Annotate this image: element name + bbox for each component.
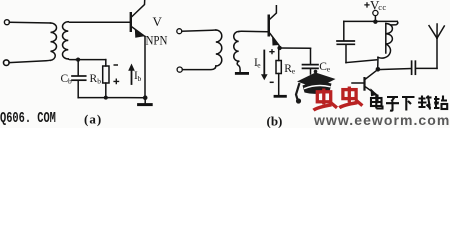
svg-text:e: e <box>257 61 261 70</box>
svg-text:V: V <box>153 14 163 29</box>
svg-text:b: b <box>138 74 142 83</box>
svg-text:b: b <box>97 77 101 86</box>
svg-text:R: R <box>90 73 98 85</box>
svg-text:www.eeworm.com: www.eeworm.com <box>313 112 450 128</box>
svg-text:(b): (b) <box>267 114 283 129</box>
svg-text:cc: cc <box>378 2 386 12</box>
svg-text:e: e <box>292 67 296 76</box>
svg-text:b: b <box>68 77 72 86</box>
svg-text:NPN: NPN <box>146 34 168 48</box>
svg-text:e: e <box>327 65 331 74</box>
svg-text:Q606. COM: Q606. COM <box>0 109 56 126</box>
svg-text:(a): (a) <box>84 112 102 127</box>
